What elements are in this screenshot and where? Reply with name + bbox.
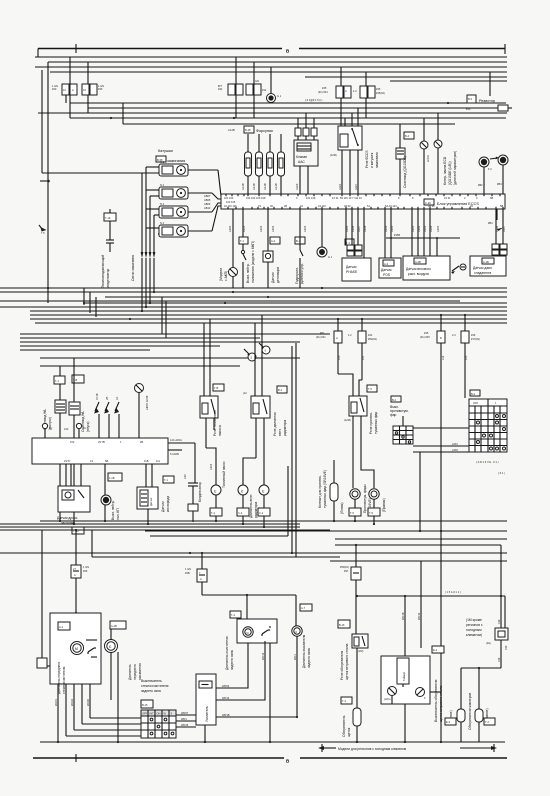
timer box	[381, 656, 430, 704]
svg-text:Датчик весового: Датчик весового	[406, 267, 431, 271]
resistor element	[478, 107, 498, 109]
svg-text:А-3: А-3	[384, 262, 389, 266]
motor radiator fan 2	[259, 485, 269, 495]
wire drop to connector E3	[235, 57, 237, 118]
svg-text:59 115 10 7 111 16: 59 115 10 7 111 16	[340, 196, 362, 200]
wire long vertical mid 2	[295, 343, 297, 557]
svg-text:12 31: 12 31	[332, 196, 339, 200]
svg-text:#52: #52	[320, 331, 325, 335]
svg-text:AF04: AF04	[209, 463, 213, 470]
wire nested line d	[70, 117, 506, 119]
svg-text:В-2: В-2	[471, 392, 476, 396]
svg-text:Клапан: Клапан	[296, 155, 307, 159]
label fog relay	[367, 385, 377, 392]
svg-text:Реле противо-: Реле противо-	[369, 412, 373, 434]
svg-text:GN: GN	[255, 79, 259, 83]
spark plug bus 1	[141, 173, 143, 252]
svg-text:А-7: А-7	[301, 606, 306, 610]
wire amp right pins	[216, 643, 248, 688]
svg-text:Т-5: Т-5	[369, 511, 373, 515]
wire band3 line 11	[330, 560, 507, 562]
svg-text:OFF: OFF	[473, 401, 479, 405]
ignition coil 2	[146, 183, 212, 199]
svg-text:омывателя: омывателя	[138, 663, 142, 680]
wire left branch 2	[20, 337, 260, 339]
wire fuse pair drop a	[340, 98, 342, 126]
wire fuel relay out	[205, 418, 207, 448]
svg-text:103 105: 103 105	[226, 200, 236, 204]
wire AAC outputs	[299, 166, 301, 194]
svg-text:Контр. лампа ECD: Контр. лампа ECD	[443, 156, 447, 185]
svg-text:зажигания: зажигания	[167, 159, 185, 163]
connector fuse pair #45	[360, 86, 367, 98]
svg-text:#52(#1): #52(#1)	[368, 337, 377, 341]
svg-text:#11: #11	[262, 88, 267, 92]
svg-text:AB07: AB07	[204, 194, 211, 198]
wire nested line b	[88, 107, 478, 109]
svg-text:1 GN: 1 GN	[185, 567, 191, 571]
svg-text:Реле ECCS: Реле ECCS	[365, 150, 369, 168]
svg-text:103: 103	[64, 427, 69, 431]
wire 15A line	[357, 595, 505, 597]
wire big enclosure top	[123, 123, 455, 125]
svg-text:#49: #49	[466, 107, 471, 111]
svg-text:Двигатель вент.: Двигатель вент.	[249, 494, 253, 518]
svg-text:F 2: F 2	[488, 167, 492, 171]
solenoid WL exhaust	[55, 400, 66, 413]
wire drop to connector E4	[253, 62, 255, 118]
svg-text:AA01: AA01	[338, 183, 342, 190]
wire coil outputs merge	[218, 170, 221, 196]
wire B bottom right segment	[300, 757, 507, 759]
svg-text:WR1: WR1	[181, 717, 187, 721]
page ref mark	[39, 225, 42, 229]
svg-text:В: В	[440, 336, 442, 340]
svg-text:(12М): (12М)	[330, 153, 337, 157]
circled ref 5 with arrow	[248, 353, 256, 361]
junction dots band3	[59, 520, 61, 522]
svg-text:34 35: 34 35	[428, 204, 435, 208]
pin ticks ECCS	[225, 194, 227, 196]
wire left branch 4	[20, 345, 220, 347]
wire relay pins	[344, 118, 346, 126]
wire nested line c	[38, 112, 507, 114]
svg-text:Резистор: Резистор	[479, 99, 495, 103]
junction dots collector	[57, 741, 59, 743]
svg-text:Реле обогревателя: Реле обогревателя	[340, 651, 344, 680]
amplifier box	[196, 674, 216, 725]
svg-text:OFF: OFF	[142, 712, 148, 716]
wire left bus vertical 1	[37, 49, 39, 58]
power steering switch	[295, 237, 305, 244]
wire rear feed	[202, 594, 296, 596]
wire bus line 6 right	[390, 80, 507, 82]
svg-text:1 GN: 1 GN	[83, 565, 89, 569]
svg-text:Т-5: Т-5	[368, 387, 372, 391]
svg-text:детонации: детонации	[276, 267, 280, 283]
svg-text:#49: #49	[497, 619, 501, 624]
wire B top-left segment	[38, 48, 282, 50]
svg-text:49 50: 49 50	[344, 204, 351, 208]
svg-text:радиатора: радиатора	[254, 502, 258, 518]
svg-text:AB08: AB08	[204, 198, 211, 202]
heater jet left	[457, 709, 465, 722]
svg-text:Т-3: Т-3	[342, 699, 346, 703]
svg-text:AF04: AF04	[303, 225, 307, 232]
svg-text:#31: #31	[218, 87, 223, 91]
svg-text:А: А	[336, 336, 338, 340]
node tick on B line	[75, 44, 77, 53]
fuse F2 circle	[498, 155, 508, 165]
wire band3 line 10	[92, 556, 340, 558]
sensor refrigerant pressure	[492, 244, 499, 249]
svg-text:#45B: #45B	[394, 233, 400, 237]
svg-text:Датчик: Датчик	[271, 272, 275, 283]
svg-text:Выключатель обогревателя: Выключатель обогревателя	[434, 679, 438, 722]
svg-text:(Правая): (Правая)	[382, 498, 386, 512]
connector 1GN26	[75, 530, 77, 565]
switch fog grid	[393, 426, 413, 444]
overdrive switch connector	[108, 473, 122, 481]
svg-text:Двигатель: Двигатель	[128, 664, 132, 680]
wire amp left pins	[176, 714, 196, 716]
wire drop to connector E1	[69, 57, 71, 118]
svg-text:101 103: 101 103	[224, 196, 234, 200]
svg-text:AB13: AB13	[204, 206, 211, 210]
fog lamp left	[352, 416, 354, 488]
svg-text:#45: #45	[424, 331, 429, 335]
svg-text:#49: #49	[504, 645, 508, 650]
spark plug arrows	[141, 252, 144, 258]
sensor mass air flow	[403, 256, 450, 280]
connector pair #41	[358, 331, 366, 343]
svg-text:11В: 11В	[144, 459, 149, 463]
connector fuse pair #44	[336, 86, 343, 98]
motor front wiper	[71, 642, 84, 655]
fuse F1 circle	[479, 157, 489, 167]
AT model switch circle	[232, 209, 234, 267]
svg-text:WR13: WR13	[222, 696, 230, 700]
connector pair #45b	[437, 331, 445, 343]
timer circle 2	[416, 688, 425, 697]
svg-text:( 1 5 А # 1 1 ): ( 1 5 А # 1 1 )	[445, 590, 461, 594]
svg-text:#2В: #2В	[185, 571, 190, 575]
svg-text:(1М кроме: (1М кроме	[466, 618, 482, 622]
lamp ECD 1	[423, 118, 425, 141]
wire F1 drop	[483, 167, 485, 194]
svg-text:Т-2: Т-2	[485, 720, 489, 724]
svg-text:WR13: WR13	[417, 612, 421, 620]
svg-text:AF05: AF05	[436, 225, 440, 232]
svg-text:А: А	[200, 577, 202, 581]
wire jog left	[91, 530, 93, 557]
svg-text:(2м): (2м)	[486, 641, 491, 645]
short bus jogs	[161, 297, 163, 334]
wire band3 line 5	[145, 530, 507, 532]
svg-text:А-1В: А-1В	[111, 624, 117, 628]
ignition coil 1	[142, 160, 218, 176]
svg-text:L#02: L#02	[452, 448, 458, 452]
svg-text:Е-4: Е-4	[433, 648, 438, 652]
svg-text:#41: #41	[368, 333, 373, 337]
svg-text:(QG15DE (L/B)): (QG15DE (L/B))	[448, 161, 452, 185]
svg-text:2В: 2В	[140, 440, 143, 444]
connector heater fuse	[355, 545, 357, 567]
svg-text:#26: #26	[83, 569, 88, 573]
capacitor noise suppressor	[104, 213, 116, 221]
svg-text:Двигатель омывателя: Двигатель омывателя	[302, 634, 306, 668]
svg-text:(Левая): (Левая)	[340, 502, 344, 514]
svg-text:A: A	[345, 89, 347, 93]
relay fuel pump	[200, 396, 218, 418]
wire L02 drop	[419, 452, 421, 531]
svg-text:Датчик дросс.: Датчик дросс.	[57, 516, 78, 520]
wire band3 line 8	[335, 544, 501, 546]
fog lamp right	[359, 416, 374, 488]
connector pair #52	[334, 331, 342, 343]
svg-text:кислорода: кислорода	[166, 496, 170, 512]
bracket cold climate models	[322, 747, 336, 749]
wire left branch 1	[20, 333, 330, 335]
svg-text:AA07: AA07	[354, 183, 358, 190]
wire drop to alternator G1	[270, 67, 272, 93]
arrow between fuses	[490, 158, 497, 159]
injector 1	[245, 152, 252, 176]
wire nested line a	[70, 102, 506, 104]
svg-text:Катушки: Катушки	[158, 149, 173, 153]
svg-text:24 31: 24 31	[444, 196, 451, 200]
svg-text:положения (модели с МКП): положения (модели с МКП)	[251, 241, 255, 283]
wire band3 line 1	[40, 520, 507, 522]
svg-text:POS: POS	[383, 273, 391, 277]
svg-text:(#1) #44: (#1) #44	[318, 90, 328, 94]
wire long vertical mid 1	[291, 346, 293, 553]
svg-text:12А AF0А: 12А AF0А	[170, 438, 182, 442]
svg-text:туманных фар (SR16VE): туманных фар (SR16VE)	[323, 470, 327, 508]
svg-text:L#5: L#5	[464, 355, 468, 360]
label injectors	[244, 126, 254, 133]
svg-text:B-48: B-48	[245, 128, 251, 132]
wire band3 line 3	[0, 526, 300, 528]
relay fog lamps	[349, 396, 367, 416]
wire bus line 2	[48, 61, 507, 63]
svg-text:Т-5: Т-5	[350, 511, 354, 515]
svg-text:и катушек: и катушек	[370, 152, 374, 168]
svg-text:#17(#1): #17(#1)	[471, 337, 480, 341]
label fuel pump relay	[213, 384, 224, 391]
alternator G1	[267, 94, 276, 103]
wire band3 line 9	[0, 552, 507, 554]
svg-text:(Модели: (Модели	[219, 268, 223, 281]
spark plug bus 4	[153, 215, 155, 252]
svg-text:Свечи зажигания: Свечи зажигания	[131, 255, 135, 281]
svg-text:Соленоид (QG15DE): Соленоид (QG15DE)	[403, 156, 407, 188]
svg-text:WR15: WR15	[181, 723, 189, 727]
wire bus line 4	[50, 71, 507, 73]
svg-text:В-4: В-4	[278, 388, 283, 392]
svg-text:Т-1: Т-1	[55, 379, 59, 383]
svg-text:с АКП): с АКП)	[224, 271, 228, 281]
wire injector feeds up	[247, 134, 249, 152]
svg-text:(12: (12	[243, 391, 247, 395]
svg-text:Г 5: Г 5	[41, 231, 45, 235]
wire left branch 5	[40, 365, 240, 367]
wire amp bottom	[204, 725, 206, 742]
switch fog lamps label	[391, 396, 401, 402]
svg-text:N 1: N 1	[160, 160, 165, 164]
wire drop fuse pair right b	[365, 72, 367, 86]
resistor block label	[467, 95, 476, 103]
wire band3 line 4	[0, 529, 330, 531]
svg-text:#45: #45	[376, 87, 381, 91]
svg-text:холодным: холодным	[466, 628, 482, 632]
svg-text:G 1: G 1	[328, 255, 333, 259]
svg-text:М: М	[75, 647, 78, 651]
svg-text:Модели для регионов с холодным: Модели для регионов с холодным климатом	[338, 747, 407, 751]
svg-text:B-2: B-2	[468, 97, 473, 101]
wire fog switch links	[402, 416, 404, 426]
svg-text:WR1: WR1	[293, 654, 297, 660]
wire ECCS right stubs	[496, 209, 498, 220]
svg-text:В-15: В-15	[142, 703, 148, 707]
svg-text:Контакт для противо-: Контакт для противо-	[318, 475, 322, 508]
svg-text:зажигания: зажигания	[375, 152, 379, 168]
svg-text:AF00: AF00	[228, 225, 232, 232]
svg-text:AF03: AF03	[271, 225, 275, 232]
svg-text:#30: #30	[98, 87, 103, 91]
svg-text:N 2: N 2	[160, 183, 165, 187]
svg-text:Форсунки: Форсунки	[256, 129, 273, 133]
svg-text:#50(#1): #50(#1)	[340, 565, 349, 569]
svg-text:Выкл. нейтр.: Выкл. нейтр.	[246, 263, 250, 283]
svg-text:заднего окна: заднего окна	[141, 689, 161, 693]
connector fuse F30	[82, 84, 89, 95]
wire bus line 1	[35, 56, 507, 58]
svg-text:(НО-L: (НО-L	[384, 697, 392, 701]
svg-text:10 110 116: 10 110 116	[224, 204, 237, 208]
connector fuse F20	[62, 84, 69, 95]
svg-text:#46: #46	[471, 333, 476, 337]
svg-text:B: B	[286, 759, 290, 764]
svg-text:(впуск): (впуск)	[86, 422, 90, 432]
svg-text:С-2: С-2	[259, 511, 264, 515]
wire left inlet	[41, 530, 43, 666]
svg-text:А-2В: А-2В	[415, 260, 421, 264]
svg-text:Датчик: Датчик	[346, 265, 357, 269]
wire injector outputs down	[247, 176, 249, 194]
svg-text:Выкл. нейтр.: Выкл. нейтр.	[111, 500, 115, 520]
knock sensor	[270, 237, 280, 244]
connector 1GN2B	[201, 553, 203, 569]
node end tick of B line	[504, 44, 506, 54]
motor front wiper assembly	[75, 612, 77, 614]
svg-text:L#01: L#01	[452, 442, 458, 446]
fog switch table	[469, 399, 507, 452]
svg-text:щеток ветрового стекла: щеток ветрового стекла	[345, 644, 349, 680]
wire fuse pair drop b	[365, 98, 367, 118]
wire main bus 2	[0, 306, 507, 308]
wire left branch 3	[20, 341, 300, 343]
wire corner to coils	[42, 172, 142, 174]
svg-text:S: S	[171, 712, 173, 716]
wire ground bus 1	[0, 287, 507, 289]
circled ref 6 with arrow	[262, 346, 270, 354]
svg-text:А-1: А-1	[59, 625, 64, 629]
svg-text:Т-19: Т-19	[105, 216, 111, 220]
svg-text:Е-3: Е-3	[446, 720, 451, 724]
wire fan relay out	[255, 418, 257, 458]
svg-text:Т-В: Т-В	[214, 386, 218, 390]
svg-text:Т-1: Т-1	[240, 239, 244, 243]
connector fuse F11	[246, 84, 253, 95]
injector 4	[278, 152, 285, 176]
svg-text:WA04: WA04	[70, 698, 74, 706]
wire plugs to ground	[141, 258, 143, 311]
spark plug bus 2	[145, 167, 147, 252]
washer motor front	[110, 621, 126, 629]
svg-text:5В: 5В	[105, 459, 108, 463]
solenoid WL intake connector	[72, 375, 84, 383]
wire relay drop	[356, 648, 358, 708]
wire left bus vertical 3	[47, 62, 49, 303]
wire timer internals	[402, 684, 404, 687]
wire drop to fuse pair right	[340, 67, 342, 86]
svg-text:L#4: L#4	[441, 355, 445, 360]
capacitor condenser	[194, 443, 196, 483]
svg-text:А-2: А-2	[271, 239, 276, 243]
svg-text:конденсатор: конденсатор	[106, 269, 110, 288]
svg-text:Обогреватели жиклеров: Обогреватели жиклеров	[468, 693, 472, 730]
heater jet right	[475, 709, 483, 722]
relay ECCS	[338, 126, 362, 150]
svg-text:25 7В: 25 7В	[98, 440, 105, 444]
label radiator fan relay	[277, 386, 287, 393]
arrow left small	[497, 228, 503, 231]
svg-text:111: 111	[156, 459, 160, 463]
svg-text:#С1В: #С1В	[95, 393, 99, 400]
wire drop to connector E2	[87, 62, 89, 113]
svg-text:AA1B: AA1B	[228, 128, 235, 132]
switch rear wiper table	[141, 710, 176, 738]
svg-text:Двигатель очистителя: Двигатель очистителя	[225, 636, 229, 670]
svg-text:N 4: N 4	[160, 221, 165, 225]
svg-text:пол. КП: пол. КП	[116, 508, 120, 520]
svg-text:(1М): (1М)	[358, 649, 363, 653]
switch blade heater	[432, 646, 444, 653]
svg-text:заднего окна: заднего окна	[307, 648, 311, 668]
svg-text:Усилитель: Усилитель	[205, 706, 209, 722]
motor rear wiper	[230, 611, 241, 618]
svg-text:L#1: L#1	[361, 355, 365, 360]
svg-text:#45(#1): #45(#1)	[376, 91, 385, 95]
svg-text:расх. воздуха: расх. воздуха	[408, 272, 429, 276]
motor radiator fan	[238, 485, 248, 495]
svg-text:Обогреватель: Обогреватель	[342, 715, 346, 737]
svg-text:АКПП АС0В: АКПП АС0В	[145, 395, 149, 410]
wire bus line 5 right	[305, 76, 507, 78]
solenoid WL exhaust connector	[54, 376, 65, 384]
svg-text:Топливный насос: Топливный насос	[222, 461, 226, 488]
svg-text:Є: Є	[295, 630, 297, 634]
svg-text:AF0: AF0	[183, 474, 187, 479]
svg-text:Т-1: Т-1	[346, 241, 350, 245]
svg-text:Противотум. фары: Противотум. фары	[363, 484, 367, 513]
oxygen sensor	[163, 476, 174, 483]
wire drop x123	[122, 103, 124, 124]
svg-text:стеклоочистителя: стеклоочистителя	[141, 684, 169, 688]
svg-text:1.0: 1.0	[353, 89, 357, 93]
wire bus line 3	[35, 66, 507, 68]
